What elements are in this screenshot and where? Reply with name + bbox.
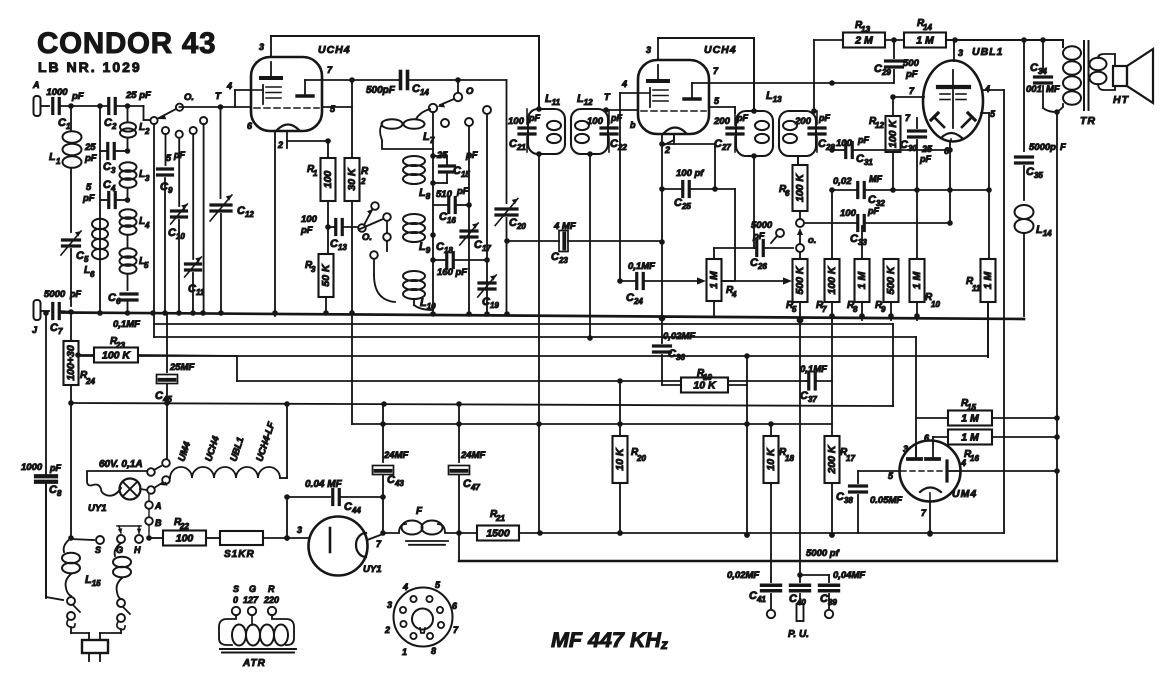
capacitor C26 5000pF bbox=[714, 220, 793, 271]
svg-text:0,1MF: 0,1MF bbox=[113, 319, 140, 330]
rail y324 bbox=[154, 313, 893, 337]
tube U4 dashed bbox=[901, 470, 944, 472]
svg-text:pF: pF bbox=[71, 91, 84, 102]
wire U1 pin2 down bbox=[275, 131, 287, 316]
node L12 bottom bbox=[587, 151, 593, 157]
svg-text:160 pF: 160 pF bbox=[437, 267, 467, 278]
svg-text:23: 23 bbox=[115, 341, 125, 350]
svg-text:MF: MF bbox=[869, 174, 882, 184]
switch contacts osc left bbox=[370, 213, 395, 302]
coil L6 bbox=[84, 219, 108, 279]
wire U3 pin5 bbox=[981, 113, 989, 190]
svg-text:A: A bbox=[32, 80, 40, 90]
ATR coil loops bbox=[232, 625, 288, 646]
resistor R11 1M bbox=[966, 190, 996, 357]
capacitor C30 25pF bbox=[900, 113, 933, 190]
capacitor C8 1000pF bbox=[21, 462, 62, 598]
wire to S contact bbox=[71, 539, 94, 540]
switch contact near C26 bbox=[771, 229, 784, 243]
capacitor C11 trimmer bbox=[185, 257, 205, 314]
svg-text:4: 4 bbox=[984, 84, 990, 94]
svg-text:4 MF: 4 MF bbox=[553, 221, 576, 232]
resistor R22 100 bbox=[163, 517, 206, 546]
IF transformer L13 secondary bbox=[779, 111, 816, 156]
tube socket UY1 bottom view bbox=[394, 588, 453, 647]
wire pickup rail bbox=[459, 533, 1057, 561]
title CONDOR 43 bbox=[37, 27, 216, 75]
svg-text:0.05MF: 0.05MF bbox=[870, 495, 902, 506]
tube U3 pin3 lead bbox=[954, 40, 963, 61]
wire lamp left bbox=[87, 471, 147, 496]
svg-text:50 K: 50 K bbox=[320, 263, 332, 287]
tube U1 UCH4 envelope bbox=[251, 44, 351, 131]
wire L11 down bbox=[538, 154, 540, 533]
rail y403 bbox=[68, 400, 893, 407]
capacitor C44 0.04MF bbox=[284, 479, 386, 515]
socket pin holes bbox=[400, 596, 444, 639]
tube U2 pin3 lead bbox=[646, 38, 658, 60]
resistor R15 1M bbox=[948, 398, 992, 426]
svg-text:1: 1 bbox=[56, 157, 61, 166]
svg-text:ATR: ATR bbox=[242, 658, 266, 669]
svg-text:O.: O. bbox=[184, 92, 194, 103]
wire U4 pin3 bbox=[915, 448, 917, 459]
capacitor C1 1000pF bbox=[46, 87, 83, 131]
wire R13 left bbox=[814, 39, 843, 41]
wire R4 top bbox=[713, 248, 715, 316]
capacitor C35 5000pF bbox=[1016, 40, 1067, 200]
svg-text:0,04MF: 0,04MF bbox=[833, 570, 865, 581]
resistor R23 100K bbox=[75, 336, 237, 363]
svg-text:6: 6 bbox=[90, 270, 95, 279]
svg-text:0: 0 bbox=[233, 595, 238, 605]
label L8 bbox=[419, 187, 431, 201]
capacitor C40 bbox=[789, 548, 840, 621]
svg-text:5: 5 bbox=[86, 182, 92, 193]
svg-text:O.: O. bbox=[362, 232, 372, 243]
wire heater riser bbox=[284, 404, 290, 541]
svg-text:5: 5 bbox=[144, 261, 149, 270]
svg-text:2 M: 2 M bbox=[854, 35, 873, 47]
ATR core bbox=[220, 649, 296, 669]
capacitor C45 25MF bbox=[155, 313, 194, 463]
capacitor C7 5000pF bbox=[41, 289, 82, 336]
resistor R21 1500 bbox=[459, 509, 1004, 541]
tube U5 electrodes bbox=[330, 528, 366, 557]
svg-text:25 pF: 25 pF bbox=[125, 90, 151, 101]
svg-text:3: 3 bbox=[387, 600, 392, 610]
capacitor C33 100pF bbox=[800, 206, 953, 247]
contact G bbox=[116, 535, 125, 555]
resistor R14 1M bbox=[904, 18, 946, 48]
tube U3 grids bbox=[940, 90, 966, 128]
capacitor C36 0,02MF bbox=[654, 318, 696, 385]
autotransformer ATR terminals bbox=[232, 607, 276, 615]
svg-text:TR: TR bbox=[1080, 115, 1096, 127]
switch blade L15 bbox=[67, 605, 80, 628]
resistor R4 1M bbox=[707, 259, 738, 301]
contact H bbox=[134, 535, 143, 555]
tube U2 cathode bbox=[664, 128, 686, 145]
tube U2 anode bbox=[648, 65, 668, 81]
svg-text:b: b bbox=[630, 120, 636, 130]
svg-text:100: 100 bbox=[840, 208, 857, 219]
resistor R16 1M bbox=[948, 430, 992, 464]
svg-text:4: 4 bbox=[402, 582, 408, 592]
svg-text:5: 5 bbox=[792, 305, 797, 314]
label PU bbox=[788, 629, 809, 640]
svg-text:500: 500 bbox=[903, 58, 920, 69]
speaker HT bbox=[1113, 49, 1153, 106]
wire T to tube1 bbox=[180, 81, 252, 107]
svg-text:R: R bbox=[268, 584, 275, 594]
svg-text:7: 7 bbox=[822, 305, 827, 314]
capacitor C17 trimmer bbox=[460, 223, 492, 253]
contact B bbox=[145, 509, 162, 538]
choke F bbox=[383, 506, 459, 545]
svg-text:UM4: UM4 bbox=[952, 488, 977, 500]
svg-text:0,1MF: 0,1MF bbox=[800, 364, 827, 375]
capacitor C12 variable bbox=[210, 195, 254, 314]
wire x893 corner bbox=[892, 324, 894, 406]
capacitor C6 bbox=[108, 292, 137, 314]
svg-text:10 K: 10 K bbox=[614, 447, 626, 471]
resistor R18 10K bbox=[764, 424, 795, 578]
svg-text:127: 127 bbox=[243, 595, 259, 605]
coil G branch bbox=[100, 543, 131, 640]
capacitor C2 25pF bbox=[104, 90, 151, 131]
svg-text:1 M: 1 M bbox=[961, 432, 979, 444]
capacitor C3 bbox=[100, 144, 130, 176]
vertical wire x100 bbox=[99, 106, 101, 314]
wire x747 bbox=[744, 356, 750, 538]
svg-text:9: 9 bbox=[881, 305, 886, 314]
svg-text:0.04 MF: 0.04 MF bbox=[305, 479, 343, 490]
resistor R13 2M bbox=[843, 20, 885, 48]
svg-text:P. U.: P. U. bbox=[788, 629, 809, 640]
capacitor C10 trimmer bbox=[168, 204, 187, 314]
tube U3 diode right bbox=[962, 113, 975, 127]
capacitor C18 160pF bbox=[433, 241, 490, 278]
svg-text:MF 447 KHz: MF 447 KHz bbox=[551, 628, 668, 652]
wire R22 to SIKR bbox=[206, 537, 220, 539]
svg-text:F: F bbox=[1060, 142, 1066, 153]
node T2 bbox=[603, 92, 611, 113]
svg-text:H: H bbox=[134, 545, 141, 555]
svg-text:500 K: 500 K bbox=[885, 265, 897, 294]
resistor R2 30K bbox=[345, 158, 370, 314]
capacitor C29 500pF bbox=[874, 40, 920, 83]
wire x469 down bbox=[441, 118, 473, 314]
svg-text:24MF: 24MF bbox=[460, 450, 485, 461]
svg-text:MF: MF bbox=[1046, 84, 1060, 95]
ATR terminal labels bbox=[233, 584, 279, 605]
svg-text:30 K: 30 K bbox=[346, 167, 358, 191]
svg-text:8: 8 bbox=[431, 646, 436, 656]
wire C7 to bus bbox=[60, 311, 74, 312]
svg-text:13: 13 bbox=[861, 25, 870, 34]
node T bbox=[215, 91, 223, 110]
wire L12 down bbox=[589, 154, 591, 338]
svg-text:1000: 1000 bbox=[46, 87, 68, 98]
wire L13 left bottom bbox=[753, 156, 755, 248]
tube U3 pin labels bbox=[909, 84, 996, 156]
svg-text:3: 3 bbox=[646, 45, 651, 55]
svg-text:200: 200 bbox=[794, 116, 812, 127]
wire U2 pin7 bbox=[709, 80, 893, 86]
tube U1 pin labels bbox=[247, 65, 336, 150]
antenna terminal A bbox=[32, 80, 41, 116]
wire x487 down bbox=[483, 106, 491, 314]
tube U4 pin labels bbox=[888, 433, 966, 518]
svg-text:3: 3 bbox=[145, 174, 150, 183]
tube U3 anode bbox=[938, 70, 969, 87]
svg-text:25: 25 bbox=[436, 150, 448, 161]
svg-text:5000 pf: 5000 pf bbox=[806, 548, 840, 559]
svg-text:0,02MF: 0,02MF bbox=[663, 331, 695, 342]
wire lamp right bbox=[140, 489, 147, 490]
heater chain coil bbox=[170, 467, 287, 478]
wire x352 below bus bbox=[351, 314, 353, 424]
coil L15 bbox=[62, 538, 101, 596]
choke SIKR bbox=[220, 531, 263, 560]
svg-text:8: 8 bbox=[853, 305, 858, 314]
tube U1 pin3 lead bbox=[259, 36, 271, 57]
svg-text:o.: o. bbox=[808, 235, 816, 246]
contact A bbox=[145, 494, 161, 511]
svg-text:G: G bbox=[249, 584, 256, 594]
svg-text:pF: pF bbox=[905, 69, 918, 80]
wire L15 to plug bbox=[71, 627, 89, 640]
terminal J bbox=[32, 300, 41, 335]
wire R1 to C13 bbox=[325, 201, 331, 254]
svg-text:F: F bbox=[416, 506, 423, 517]
svg-text:S: S bbox=[95, 545, 101, 555]
capacitor C22 100pF bbox=[587, 110, 627, 152]
arrow into R5 bbox=[723, 277, 792, 284]
wire C14 to corner bbox=[408, 77, 507, 83]
svg-text:1 M: 1 M bbox=[708, 271, 720, 289]
svg-text:3: 3 bbox=[958, 48, 963, 58]
tube U3 UBL1 envelope bbox=[923, 46, 1003, 142]
capacitor C23 4MF bbox=[504, 221, 662, 265]
capacitor C4 5pF bbox=[82, 179, 130, 208]
mains plug bbox=[82, 640, 108, 661]
coil L8 bbox=[403, 156, 425, 184]
svg-text:21: 21 bbox=[495, 514, 505, 523]
wire C2 to switch bbox=[116, 103, 150, 120]
svg-text:17: 17 bbox=[846, 454, 855, 463]
wire C40 vertical bbox=[797, 320, 803, 582]
svg-text:15: 15 bbox=[967, 403, 976, 412]
svg-text:pF: pF bbox=[818, 113, 830, 123]
svg-text:5000: 5000 bbox=[44, 289, 66, 300]
resistor R12 100K bbox=[869, 94, 901, 190]
wire SIKR to UY1 bbox=[263, 525, 309, 541]
coil L5 bbox=[120, 248, 150, 290]
wire R13-R14 junction bbox=[885, 37, 904, 43]
node L13 top bbox=[751, 108, 757, 159]
wire C1 to C2 bbox=[60, 103, 108, 109]
tube U1 grids bbox=[251, 85, 281, 104]
IF transformer L12 bbox=[571, 93, 608, 154]
svg-text:100: 100 bbox=[301, 214, 318, 225]
capacitor C13 100pF bbox=[300, 214, 357, 252]
label L10 bbox=[420, 297, 436, 311]
switch heater lower bbox=[147, 476, 170, 494]
coil L1 bbox=[49, 106, 97, 232]
capacitor C25 100pf bbox=[662, 168, 718, 211]
svg-text:6: 6 bbox=[785, 189, 790, 198]
tube U1 cathode bbox=[277, 125, 299, 142]
capacitor C16 510pF bbox=[433, 186, 472, 225]
tube U1 dashed bbox=[254, 107, 319, 109]
svg-text:100 K: 100 K bbox=[826, 265, 838, 294]
svg-text:200 K: 200 K bbox=[826, 444, 838, 474]
wire U1 pin7 bbox=[322, 77, 399, 83]
svg-text:pF: pF bbox=[919, 154, 931, 164]
svg-text:16: 16 bbox=[970, 454, 979, 463]
top wire y38 bbox=[658, 38, 754, 111]
svg-text:3: 3 bbox=[259, 42, 264, 52]
svg-text:R: R bbox=[361, 166, 369, 177]
node L15 top bbox=[68, 535, 74, 541]
label UBL1 rot bbox=[228, 436, 246, 463]
svg-text:220: 220 bbox=[263, 595, 279, 605]
svg-text:pF: pF bbox=[69, 289, 81, 299]
wire U2 pin2 bbox=[659, 134, 674, 318]
svg-text:0,02: 0,02 bbox=[833, 176, 852, 187]
ATR winding right bbox=[252, 615, 294, 645]
coil L7 bbox=[380, 109, 435, 149]
wire U4 pin7 bbox=[927, 501, 933, 536]
capacitor C14 500pF bbox=[366, 72, 429, 98]
svg-text:100: 100 bbox=[587, 116, 604, 127]
wire H to R22 bbox=[149, 537, 163, 539]
svg-text:2: 2 bbox=[664, 145, 670, 155]
ATR winding left bbox=[219, 615, 236, 645]
capacitor C15 25pF bbox=[433, 150, 478, 183]
coil L2 bbox=[120, 106, 150, 151]
capacitor C43 24MF bbox=[373, 404, 409, 533]
wire U4 pin4 bbox=[947, 470, 1057, 472]
tube U4 electrodes bbox=[908, 444, 947, 481]
svg-text:pF: pF bbox=[300, 225, 313, 236]
output transformer TR primary bbox=[1056, 40, 1081, 112]
rail y356 bbox=[78, 353, 988, 406]
switch heater upper bbox=[147, 313, 170, 476]
node C47 bottom bbox=[456, 530, 462, 536]
wire C25 to R4 bbox=[715, 189, 735, 281]
arrow into R4 bbox=[697, 277, 706, 284]
switch at C13 bbox=[358, 202, 379, 243]
svg-text:25: 25 bbox=[84, 142, 96, 153]
resistor R17 200K bbox=[825, 424, 856, 538]
tube U2 UCH4 envelope bbox=[638, 44, 737, 134]
resistor R7 100K bbox=[816, 190, 840, 320]
svg-text:12: 12 bbox=[875, 121, 884, 130]
svg-text:pF: pF bbox=[528, 113, 540, 123]
wire x832 mid bbox=[831, 316, 833, 424]
svg-text:10: 10 bbox=[931, 300, 940, 309]
svg-text:20: 20 bbox=[636, 454, 646, 463]
svg-text:O: O bbox=[466, 86, 474, 97]
svg-text:2: 2 bbox=[277, 140, 283, 150]
node heater H bbox=[146, 535, 152, 541]
resistor R19 10K bbox=[662, 368, 747, 393]
wire x1056 down bbox=[1054, 112, 1060, 561]
tube U3 diode left bbox=[931, 113, 944, 127]
svg-text:1 M: 1 M bbox=[916, 35, 934, 47]
rail y381 bbox=[237, 356, 806, 384]
label UM4 rot bbox=[176, 440, 193, 463]
svg-text:500pF: 500pF bbox=[366, 85, 396, 96]
label 0,1MF bbox=[113, 319, 140, 330]
svg-text:4: 4 bbox=[731, 290, 737, 299]
IF transformer L11 bbox=[528, 93, 565, 154]
label UCH4 rot bbox=[203, 434, 222, 463]
tube U2 screen bbox=[684, 83, 709, 99]
svg-text:100: 100 bbox=[322, 171, 334, 189]
svg-text:100 K: 100 K bbox=[887, 119, 899, 148]
wire U2 cathode jog bbox=[662, 144, 715, 189]
top wire y36 bbox=[271, 35, 539, 37]
node L13 sec top bbox=[798, 40, 817, 165]
coil L9 bbox=[403, 214, 425, 242]
svg-text:pF: pF bbox=[857, 135, 869, 145]
capacitor C37 0,1MF bbox=[800, 364, 832, 404]
tube U2 grids bbox=[638, 88, 668, 107]
node L11 bottom bbox=[536, 151, 542, 157]
wire U1 cathode to R1 bbox=[287, 138, 331, 158]
svg-text:LB NR. 1029: LB NR. 1029 bbox=[38, 59, 142, 75]
resistor R10 1M bbox=[910, 190, 941, 320]
wire U2 pin4 bbox=[620, 93, 638, 282]
svg-text:pF: pF bbox=[82, 193, 95, 204]
tube U1 screen bbox=[297, 80, 322, 96]
tube U2 pin labels bbox=[621, 66, 720, 155]
svg-text:200: 200 bbox=[713, 116, 731, 127]
wire osc left links bbox=[360, 219, 387, 251]
bus dots bbox=[68, 309, 920, 323]
wire R14 right bbox=[946, 37, 1063, 43]
capacitor C39 0,04MF bbox=[800, 570, 865, 618]
capacitor C20 variable bbox=[495, 80, 526, 314]
wire R15 leads bbox=[916, 418, 1057, 437]
svg-text:100 pf: 100 pf bbox=[676, 168, 704, 179]
resistor R1 100 bbox=[307, 158, 336, 201]
svg-text:4: 4 bbox=[144, 221, 150, 230]
wire R16 leads bbox=[933, 436, 1057, 438]
svg-text:500 K: 500 K bbox=[794, 265, 806, 294]
wire osc main vertical bbox=[430, 112, 436, 314]
label MF 447 KHz bbox=[551, 628, 668, 652]
contact S bbox=[95, 536, 104, 555]
svg-text:22: 22 bbox=[179, 522, 189, 531]
capacitor C27 200pF bbox=[713, 111, 748, 152]
svg-text:11: 11 bbox=[972, 284, 981, 293]
resistor R9 500K bbox=[875, 259, 899, 320]
svg-text:3: 3 bbox=[903, 444, 908, 454]
svg-text:0,02MF: 0,02MF bbox=[727, 570, 759, 581]
svg-text:1000: 1000 bbox=[21, 462, 43, 473]
wire R5 bottom bbox=[797, 302, 803, 323]
wire U4 pin5 and C38 bbox=[836, 471, 902, 533]
tube U5 UY1 envelope bbox=[309, 517, 382, 576]
svg-text:L: L bbox=[49, 151, 55, 163]
svg-text:100 K: 100 K bbox=[102, 350, 131, 362]
svg-text:25MF: 25MF bbox=[169, 362, 194, 373]
